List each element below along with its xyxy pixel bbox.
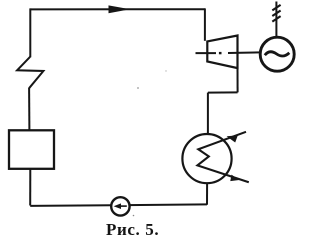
condenser K (circle) xyxy=(182,134,231,183)
shaft centerline segment to generator xyxy=(228,51,260,54)
figure caption xyxy=(106,220,176,240)
break zigzag on left riser xyxy=(17,57,43,88)
turbine exhaust horizontal xyxy=(208,91,238,93)
flow arrow on top wire xyxy=(109,5,131,13)
generator G (circle) xyxy=(260,37,294,71)
cooling water zigzag through condenser xyxy=(197,132,248,182)
turbine exhaust vertical right xyxy=(237,68,239,93)
pump P (circle) xyxy=(111,197,129,215)
lead break tick 3 xyxy=(272,16,280,22)
cooling water arrowhead bottom xyxy=(230,175,239,182)
wire bottom horizontal (pump line) xyxy=(30,204,207,206)
turbine T (trapezoid) xyxy=(207,36,237,69)
lead break tick 2 xyxy=(272,11,280,17)
wire top horizontal (boiler to turbine) xyxy=(30,8,205,10)
generator lead wire up xyxy=(275,2,277,38)
cooling water outlet arrowhead top xyxy=(227,135,238,142)
wire turbine inlet vertical xyxy=(204,8,206,40)
wire top-left vertical xyxy=(29,8,31,57)
condenser inlet vertical xyxy=(207,93,209,135)
scan speck 3 xyxy=(165,70,166,71)
generator sine wave xyxy=(265,52,290,56)
scan speck 1 xyxy=(137,87,139,89)
shaft centerline dash-dot segment left xyxy=(196,52,217,54)
condenser outlet vertical xyxy=(206,183,208,205)
wire left vertical below boiler xyxy=(29,169,31,206)
scan speck 2 xyxy=(133,215,135,217)
pump flow arrow (points left) xyxy=(120,205,127,207)
boiler B (rectangle) xyxy=(9,130,54,169)
lead break tick 1 xyxy=(272,5,280,10)
wire left vertical above boiler xyxy=(28,88,30,130)
shaft centerline dot xyxy=(219,52,222,54)
